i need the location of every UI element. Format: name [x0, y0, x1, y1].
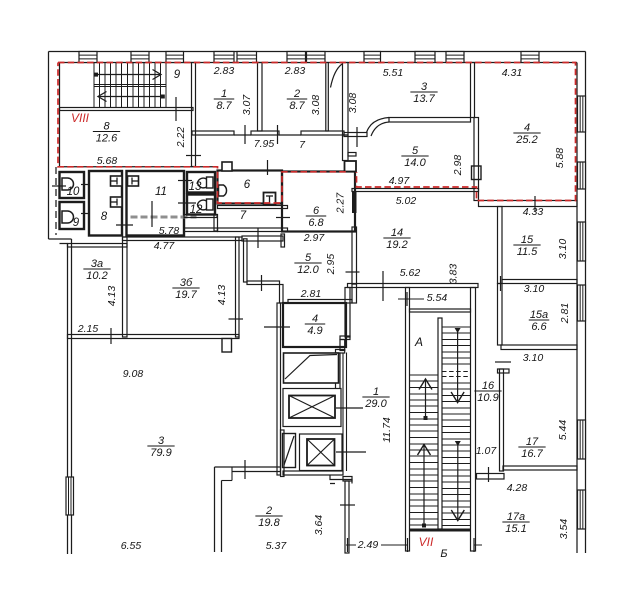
svg-text:VII: VII	[419, 535, 434, 549]
window top wall 2	[131, 52, 149, 63]
window right wall 4	[578, 285, 586, 321]
window right wall 5	[578, 420, 586, 459]
wall room7 bottom left	[184, 228, 218, 232]
window top wall 1	[79, 52, 97, 63]
svg-text:VIII: VIII	[71, 111, 90, 125]
window top wall 9	[415, 52, 435, 63]
svg-text:15.1: 15.1	[505, 523, 526, 535]
svg-text:7.95: 7.95	[254, 138, 275, 150]
fixture room 8 lower	[111, 197, 123, 207]
wall below room1 segment	[192, 131, 234, 135]
toilet room 12	[207, 199, 214, 210]
wall below room3	[389, 118, 471, 123]
room 13 box	[187, 172, 215, 193]
svg-text:10.2: 10.2	[86, 270, 107, 282]
wall 4.28 segment	[477, 474, 505, 480]
tick rooms12 wall left	[244, 125, 246, 144]
wall room14 | room15	[498, 207, 503, 284]
svg-text:3.83: 3.83	[448, 264, 460, 285]
wall elevator hall left lower	[336, 353, 341, 389]
svg-text:79.9: 79.9	[150, 447, 171, 459]
wall room2 | room3	[343, 63, 349, 136]
svg-text:4: 4	[312, 313, 318, 325]
wall behind elevators	[342, 353, 344, 472]
svg-text:6.8: 6.8	[308, 217, 324, 229]
svg-text:12.0: 12.0	[297, 264, 319, 276]
svg-text:6: 6	[313, 205, 320, 217]
window right wall 2	[578, 162, 586, 189]
svg-text:5: 5	[412, 145, 419, 157]
outer wall left outer line	[48, 52, 50, 240]
svg-text:14: 14	[391, 227, 403, 239]
tick rooms12 wall right	[277, 125, 279, 144]
fixture room 8 upper	[111, 176, 123, 186]
svg-text:2.15: 2.15	[77, 323, 99, 335]
tick room16 wall	[495, 361, 511, 363]
wall room1 | room2	[258, 63, 263, 132]
stair arrow down flight 1	[457, 328, 459, 403]
svg-text:5.37: 5.37	[266, 540, 288, 552]
svg-text:11.5: 11.5	[517, 246, 538, 258]
elevator 2 outer	[300, 434, 343, 471]
wall below 4.97 line	[352, 189, 479, 192]
wall corridor left x345	[345, 481, 349, 553]
svg-text:2.95: 2.95	[325, 254, 337, 276]
svg-text:4.31: 4.31	[502, 67, 522, 79]
tick beam room11	[151, 201, 153, 227]
wall elevator hall jog 1	[340, 336, 350, 340]
tick room6 top wall	[267, 160, 269, 175]
window right wall 3	[578, 222, 586, 261]
svg-text:6.55: 6.55	[121, 540, 142, 552]
svg-text:10.9: 10.9	[477, 392, 498, 404]
stair arrow up flight 1	[425, 379, 427, 418]
outer wall left jog top	[49, 238, 72, 240]
svg-text:13.7: 13.7	[413, 93, 435, 105]
svg-text:8.7: 8.7	[289, 100, 305, 112]
stair9 arrow left	[99, 96, 163, 98]
svg-text:3.07: 3.07	[241, 94, 253, 116]
svg-text:12.6: 12.6	[96, 133, 118, 145]
room2 left wall outer	[214, 467, 216, 552]
elevator lobby notch	[330, 475, 352, 484]
toilet room 13	[207, 177, 214, 188]
svg-text:13: 13	[189, 181, 202, 193]
svg-text:9: 9	[73, 217, 80, 229]
window top wall 4	[214, 52, 234, 63]
fixture T room 6	[264, 193, 276, 205]
tick wall 11-12	[178, 202, 196, 204]
svg-text:5.51: 5.51	[383, 67, 403, 79]
tick room2 top wall	[244, 460, 246, 479]
outer wall lower-left inner line	[71, 239, 73, 554]
tick room6-8 left wall	[276, 217, 290, 219]
svg-text:19.8: 19.8	[258, 517, 280, 529]
tick vestibule bottom	[261, 275, 263, 291]
room 11 box	[127, 171, 185, 236]
window left wall	[66, 477, 74, 515]
beam dashed line rooms 11	[131, 216, 197, 219]
wall vestibule bottom	[247, 281, 280, 285]
svg-text:2.98: 2.98	[452, 155, 464, 177]
svg-text:2: 2	[293, 88, 300, 100]
svg-text:3.64: 3.64	[313, 515, 325, 536]
outer wall top outer line	[49, 51, 586, 53]
tick room4-4.9 left	[264, 326, 290, 328]
svg-text:17а: 17а	[507, 511, 525, 523]
svg-text:29.0: 29.0	[364, 398, 387, 410]
wall under room 12	[184, 215, 217, 218]
svg-text:5.78: 5.78	[159, 225, 180, 237]
room 4 (4.9) box	[283, 303, 346, 347]
fixture room 11	[128, 176, 139, 186]
tick wall 8-11	[116, 224, 133, 226]
room 6.8 top notch	[345, 161, 357, 172]
svg-text:3.08: 3.08	[310, 95, 322, 116]
wall below elevators	[283, 471, 343, 475]
room 6 box	[218, 171, 283, 204]
wall left of room5-12	[280, 285, 284, 304]
wall room3a top	[68, 244, 128, 248]
stairwell bottom landing line	[410, 529, 471, 532]
wall room7 corner	[214, 215, 218, 232]
room 12 box	[187, 195, 215, 215]
curved corridor wall	[367, 118, 390, 137]
wall stub left of curve	[344, 133, 367, 137]
wall room4 bottom / room15 top	[479, 201, 578, 207]
outer wall left inner line	[59, 63, 61, 167]
svg-text:1.07: 1.07	[476, 445, 498, 457]
svg-text:8: 8	[103, 121, 110, 133]
svg-text:11: 11	[155, 186, 167, 198]
wall behind elevators 2	[346, 353, 348, 472]
tick room8 left wall upper	[81, 184, 90, 186]
window top wall 8	[364, 52, 381, 63]
svg-text:6: 6	[244, 179, 251, 191]
svg-text:19.2: 19.2	[386, 239, 407, 251]
svg-text:11.74: 11.74	[381, 417, 393, 443]
tick 5.54	[406, 292, 408, 306]
leader 5.54	[398, 298, 424, 300]
wall stub below room 6.8	[281, 234, 285, 247]
room 8 box	[89, 171, 122, 236]
tick vestibule top	[257, 228, 259, 248]
svg-text:19.7: 19.7	[175, 289, 197, 301]
wall room17 left	[500, 369, 504, 471]
wall room5 | room4 vent	[474, 118, 479, 201]
svg-text:7: 7	[240, 210, 247, 222]
tick rooms3 bottom wall	[110, 328, 112, 344]
svg-text:2: 2	[265, 505, 272, 517]
elevator 1 leader	[336, 407, 363, 409]
svg-text:25.2: 25.2	[515, 134, 537, 146]
svg-text:5.62: 5.62	[400, 267, 421, 279]
svg-text:3б: 3б	[180, 277, 193, 289]
stair9 arrow right	[96, 74, 160, 76]
room2 right wall	[281, 430, 285, 477]
svg-text:4.77: 4.77	[154, 240, 176, 252]
stair section cut band	[443, 369, 470, 382]
wall room3a | room3b	[123, 237, 128, 337]
outer wall left jog bottom	[60, 243, 68, 245]
svg-text:15: 15	[521, 234, 534, 246]
outer wall left inner dashed segment	[55, 167, 57, 235]
window right wall 6	[578, 490, 586, 529]
wall room7 top	[218, 206, 288, 209]
tick dim 2.49 mid	[407, 538, 409, 552]
room2 top step	[231, 467, 233, 481]
svg-text:2.49: 2.49	[357, 539, 379, 551]
wall room5-12 right	[352, 227, 357, 284]
wall elevator hall left upper	[345, 288, 350, 338]
svg-text:4.97: 4.97	[389, 175, 411, 187]
svg-text:8: 8	[101, 211, 108, 223]
room2 top wall inner	[232, 471, 281, 473]
pilaster below 3b	[222, 339, 232, 353]
wall room17 bottom	[503, 466, 577, 470]
tick corridor 5.68 wall	[186, 155, 201, 157]
svg-text:15а: 15а	[530, 309, 548, 321]
svg-text:2.27: 2.27	[335, 192, 347, 215]
svg-text:4.13: 4.13	[106, 286, 118, 307]
tick wall 4.28	[488, 467, 490, 482]
wall elevator hall jog 2	[336, 350, 345, 354]
room2 left wall inner	[221, 481, 223, 553]
stair treads right flight upper	[442, 326, 471, 328]
svg-text:3.10: 3.10	[523, 352, 544, 364]
elevator 2 leader	[336, 451, 366, 453]
stair arrow up flight 2	[423, 445, 425, 526]
room 10 box	[60, 172, 85, 198]
stairwell landing line	[410, 309, 471, 312]
window top wall 3	[166, 52, 184, 63]
wall vestibule top	[242, 236, 283, 241]
window top wall 11	[521, 52, 539, 63]
svg-text:3.08: 3.08	[347, 93, 359, 114]
wall room2 closet	[326, 63, 329, 132]
tick below room3 curve	[356, 127, 358, 147]
tick room15 top wall	[534, 196, 536, 211]
wall elevators left	[277, 303, 281, 475]
svg-text:Б: Б	[440, 548, 447, 560]
svg-text:5.44: 5.44	[557, 420, 569, 441]
wall room15a bottom	[501, 345, 577, 350]
stairwell newel wall	[438, 318, 442, 529]
svg-text:8.7: 8.7	[216, 100, 232, 112]
wall hook right of jamb	[348, 153, 356, 157]
window top wall 6	[287, 52, 306, 63]
svg-text:1: 1	[221, 88, 227, 100]
duct wall	[244, 239, 248, 282]
wall room16 stub	[498, 369, 510, 373]
tick wall VIII left	[52, 185, 66, 187]
tick wall 11-13	[178, 180, 192, 182]
elevator duct box	[283, 434, 296, 468]
wall corridor top	[343, 477, 352, 482]
room2 top wall outer	[215, 466, 281, 468]
svg-text:9: 9	[174, 69, 181, 81]
wall room3b right	[236, 237, 240, 337]
tick room8 left wall	[81, 213, 90, 215]
tick room15-15a wall	[500, 276, 502, 291]
svg-text:5.68: 5.68	[97, 155, 118, 167]
urinal room 6	[219, 185, 227, 196]
svg-text:5.02: 5.02	[396, 195, 417, 207]
wall below stairwell 9	[60, 108, 194, 111]
outer wall right inner line	[576, 63, 578, 554]
tick dim 2.49 left	[347, 538, 349, 552]
wall jamb below closet	[343, 135, 349, 161]
stairwell right wall	[471, 288, 476, 552]
dim line 2.49	[346, 544, 482, 546]
wall room15 | room15a	[502, 280, 577, 284]
svg-text:6.6: 6.6	[531, 321, 547, 333]
svg-text:5: 5	[305, 252, 312, 264]
door opening threshold room2	[279, 134, 301, 136]
elevator 2 cab	[307, 439, 335, 466]
svg-text:4.33: 4.33	[523, 206, 544, 218]
window top wall 7	[307, 52, 326, 63]
outer wall top inner line	[60, 62, 578, 64]
tick corridor wall right of room2	[340, 504, 355, 506]
wall room3 | room4	[471, 63, 475, 118]
svg-text:5.88: 5.88	[554, 148, 566, 169]
elevator 1 outer	[283, 389, 341, 427]
red dashed boundary region VIII	[58, 63, 576, 204]
svg-text:1: 1	[373, 386, 379, 398]
window right wall 1	[578, 96, 586, 132]
stairwell left wall	[406, 288, 410, 552]
corridor VIII boundary line	[58, 166, 218, 168]
svg-text:3.10: 3.10	[524, 283, 545, 295]
tick dim right	[473, 538, 475, 552]
stair treads left flight	[410, 374, 439, 376]
svg-text:14.0: 14.0	[404, 157, 426, 169]
svg-text:3: 3	[421, 81, 428, 93]
wall room7 bottom right	[218, 228, 288, 232]
wall room3b top	[123, 237, 243, 241]
elevator 1 cab	[289, 396, 335, 419]
door opening threshold room1	[234, 134, 251, 136]
svg-text:4.28: 4.28	[507, 482, 528, 494]
sink room 9	[62, 211, 74, 223]
wall below rooms1-2 segment	[251, 131, 279, 135]
wall below room2 segment	[301, 131, 344, 135]
svg-text:10: 10	[67, 186, 80, 198]
svg-text:16: 16	[482, 380, 495, 392]
wall room5-12 right upper solid	[352, 191, 357, 213]
wall stairwell9 / room1	[192, 63, 196, 167]
tick room5-12 right wall	[346, 271, 360, 273]
wall room4-4.9 top	[288, 300, 352, 304]
svg-text:3а: 3а	[91, 258, 103, 270]
svg-text:2.97: 2.97	[303, 232, 326, 244]
svg-text:17: 17	[526, 436, 539, 448]
stairwell 9 treads	[93, 63, 95, 108]
svg-text:3.10: 3.10	[557, 239, 569, 260]
svg-text:16.7: 16.7	[521, 448, 543, 460]
svg-text:2.83: 2.83	[213, 65, 235, 77]
wall room5-12 right lower	[352, 284, 357, 303]
svg-text:2.81: 2.81	[300, 288, 321, 300]
svg-text:12: 12	[190, 204, 203, 216]
room 6 (6.8) box	[282, 172, 355, 232]
outer wall right outer line	[585, 52, 587, 554]
sink room 10	[62, 178, 74, 190]
svg-text:2.81: 2.81	[559, 303, 571, 324]
svg-text:9.08: 9.08	[123, 368, 144, 380]
room2 step lower	[222, 480, 233, 482]
stairwell top wall	[348, 284, 479, 288]
wall room15a left	[498, 284, 503, 346]
room 6 top notch	[222, 162, 232, 171]
svg-text:3: 3	[158, 435, 165, 447]
wall elevator hall left middle	[340, 340, 345, 351]
door leaf closet	[331, 64, 343, 88]
tick room14 bottom wall long	[382, 271, 384, 301]
svg-text:2.22: 2.22	[175, 127, 187, 149]
tick room3b right wall	[229, 318, 244, 320]
outer wall lower-left outer line	[67, 244, 69, 555]
room 9 box	[60, 202, 85, 229]
window top wall 10	[446, 52, 464, 63]
svg-text:4: 4	[524, 122, 530, 134]
svg-text:А: А	[414, 335, 423, 349]
machine room box	[284, 353, 339, 383]
svg-text:4.13: 4.13	[216, 285, 228, 306]
svg-text:3.54: 3.54	[558, 519, 570, 540]
wall rooms 3a-3b bottom	[68, 335, 240, 339]
stair arrow down flight 2	[457, 441, 459, 521]
vent shaft block	[472, 166, 482, 180]
window top wall 5	[237, 52, 257, 63]
svg-text:2.83: 2.83	[284, 65, 306, 77]
svg-text:4.9: 4.9	[307, 325, 322, 337]
stair treads right flight lower	[442, 382, 471, 384]
svg-text:5.54: 5.54	[427, 292, 448, 304]
tick stair9 wall	[175, 97, 177, 121]
